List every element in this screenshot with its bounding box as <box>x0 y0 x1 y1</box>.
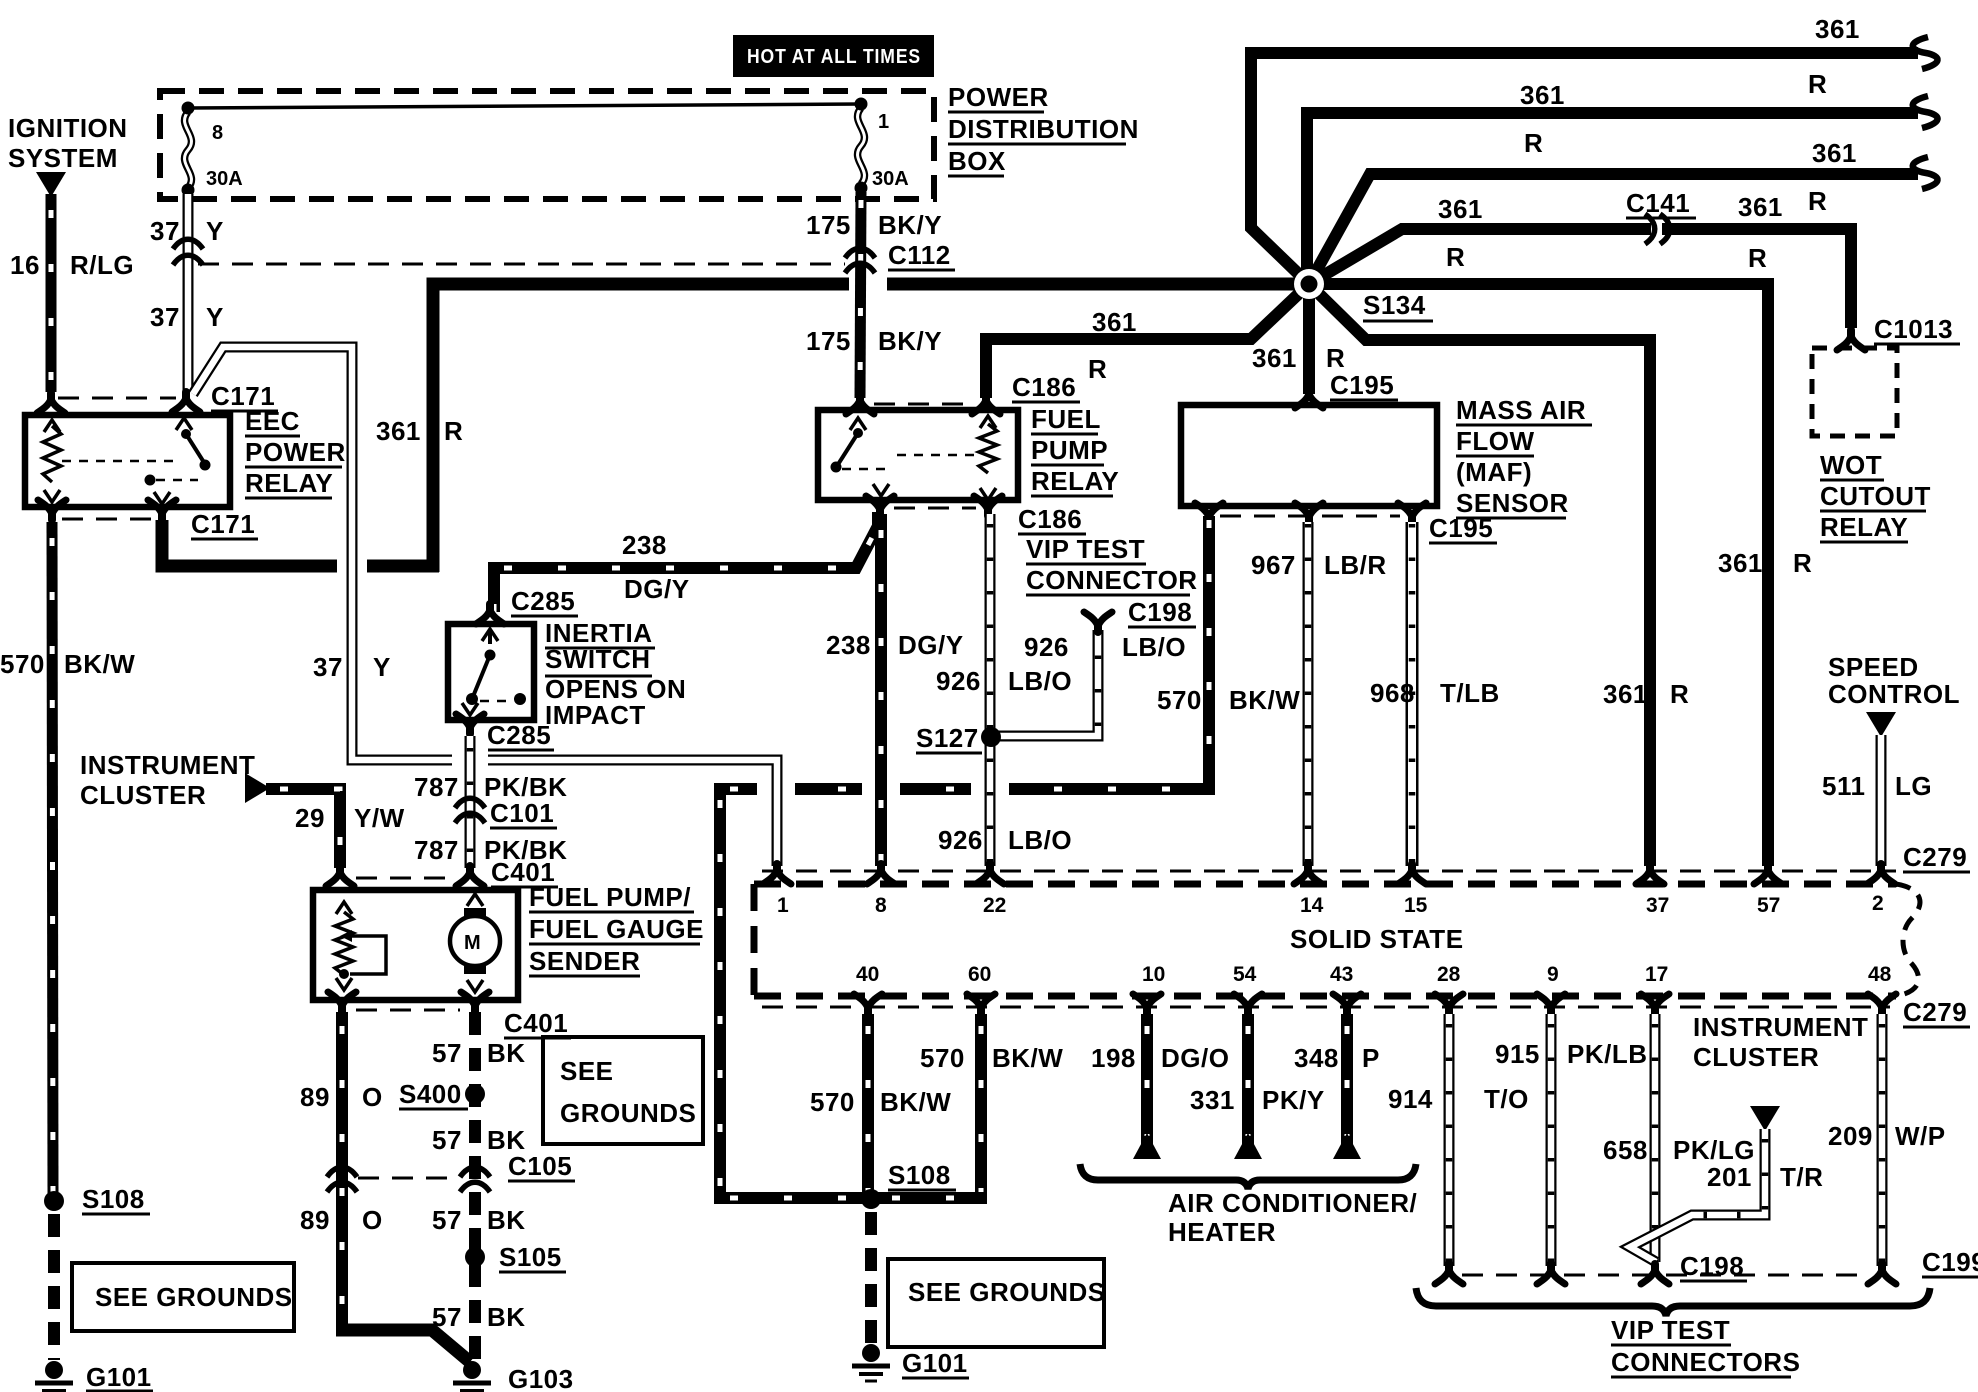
svg-text:C186: C186 <box>1018 504 1082 534</box>
svg-text:C141: C141 <box>1626 188 1690 218</box>
wire S108 to G101 (dashed) <box>48 1214 60 1360</box>
svg-text:PK/LG: PK/LG <box>1673 1135 1755 1165</box>
fuel pump motor M <box>450 916 500 966</box>
wire break squiggle line 2 <box>1913 96 1938 128</box>
svg-text:HEATER: HEATER <box>1168 1217 1276 1247</box>
svg-text:15: 15 <box>1404 894 1428 917</box>
svg-text:C186: C186 <box>1012 372 1076 402</box>
svg-text:C285: C285 <box>511 586 575 616</box>
svg-text:54: 54 <box>1233 963 1257 986</box>
connector C401 (sender bottom left) <box>328 992 356 1012</box>
svg-text:238: 238 <box>826 630 871 660</box>
svg-text:G103: G103 <box>508 1364 574 1392</box>
EEC relay coil <box>43 426 61 482</box>
connector C401 (29 wire end) <box>326 866 354 886</box>
connector C198 (VIP test) <box>1084 612 1112 632</box>
svg-text:T/O: T/O <box>1484 1084 1529 1114</box>
svg-text:LB/O: LB/O <box>1008 666 1072 696</box>
dashed harness line at C171 top <box>58 397 176 400</box>
svg-text:C105: C105 <box>508 1151 572 1181</box>
wire 29 Y/W instrument cluster to C401 <box>266 789 340 868</box>
svg-text:968: 968 <box>1370 678 1415 708</box>
svg-text:IGNITION: IGNITION <box>8 113 128 143</box>
wire 361 R C171 to S134 riser <box>162 520 439 566</box>
svg-text:C112: C112 <box>888 240 951 270</box>
svg-text:BK/Y: BK/Y <box>878 210 942 240</box>
svg-text:361: 361 <box>1438 194 1483 224</box>
svg-text:37: 37 <box>150 216 180 246</box>
connector C279 pin 60 <box>967 994 995 1014</box>
svg-text:INSTRUMENT: INSTRUMENT <box>1693 1012 1868 1042</box>
connector C171 (37 Y wire end) <box>172 392 200 412</box>
svg-text:209: 209 <box>1828 1121 1873 1151</box>
svg-text:787: 787 <box>414 772 459 802</box>
svg-text:PK/Y: PK/Y <box>1262 1085 1325 1115</box>
connector C186 (relay bottom right) <box>974 496 1002 516</box>
wire 361 R S134 arm to top line 1 <box>1251 53 1918 284</box>
dashed harness line C198/C199 <box>1462 1274 1870 1277</box>
off-page triangle instrument cluster <box>245 773 270 803</box>
dashed harness line C186 top <box>874 403 976 406</box>
connector C279 pin 17 <box>1641 994 1669 1014</box>
connector C198 (914 wire) <box>1435 1264 1463 1284</box>
wire break squiggle line 1 <box>1913 37 1938 69</box>
svg-text:DG/O: DG/O <box>1161 1043 1229 1073</box>
fuel pump relay coil <box>979 424 997 473</box>
svg-text:16: 16 <box>10 250 40 280</box>
wire 967 LB/R MAF to EEC pin 14 <box>1303 522 1314 866</box>
svg-text:511: 511 <box>1822 771 1865 801</box>
wire 968 T/LB MAF to EEC pin 15 <box>1406 522 1419 866</box>
connector C112 <box>845 248 875 258</box>
svg-text:89: 89 <box>300 1205 330 1235</box>
svg-text:LB/O: LB/O <box>1122 632 1186 662</box>
connector C279 pin 43 <box>1333 994 1361 1014</box>
svg-text:570: 570 <box>0 649 45 679</box>
svg-text:10: 10 <box>1142 963 1165 986</box>
svg-text:201: 201 <box>1707 1162 1752 1192</box>
svg-text:MASS AIR: MASS AIR <box>1456 395 1586 425</box>
svg-text:926: 926 <box>938 825 983 855</box>
fuel pump / fuel gauge sender box <box>313 890 518 1000</box>
svg-text:SOLID STATE: SOLID STATE <box>1290 924 1464 954</box>
EEC relay internal dashed link <box>62 460 180 463</box>
wire 361 R S134 arm to EEC pin 37 <box>1309 284 1650 866</box>
svg-text:43: 43 <box>1330 963 1353 986</box>
svg-text:48: 48 <box>1868 963 1892 986</box>
connector C1013 <box>1837 330 1865 350</box>
svg-text:T/LB: T/LB <box>1440 678 1500 708</box>
svg-text:P: P <box>1362 1043 1380 1073</box>
splice S108 (center) <box>861 1189 881 1209</box>
dashed harness line C401 top <box>356 877 456 880</box>
connector C401 (787 wire end) <box>456 866 484 886</box>
connector C279 pin 15 <box>1398 864 1426 884</box>
svg-text:1: 1 <box>878 111 889 133</box>
svg-text:361: 361 <box>1520 80 1565 110</box>
svg-text:BK/Y: BK/Y <box>878 326 942 356</box>
svg-text:570: 570 <box>920 1043 965 1073</box>
fuel pump relay box <box>818 410 1018 500</box>
label HOT AT ALL TIMES <box>733 35 934 77</box>
svg-text:CLUSTER: CLUSTER <box>1693 1042 1819 1072</box>
svg-text:14: 14 <box>1300 894 1324 917</box>
inertia switch internals <box>482 629 498 641</box>
off-page triangle 201 wire <box>1750 1106 1780 1131</box>
svg-text:CUTOUT: CUTOUT <box>1820 481 1931 511</box>
svg-text:CLUSTER: CLUSTER <box>80 780 206 810</box>
svg-text:FLOW: FLOW <box>1456 426 1535 456</box>
EEC relay switch <box>176 418 192 430</box>
connector C279 pin 37 <box>1636 864 1664 884</box>
svg-text:29: 29 <box>295 803 325 833</box>
svg-text:R: R <box>1326 343 1345 373</box>
svg-text:C279: C279 <box>1903 997 1967 1027</box>
svg-text:Y: Y <box>206 216 224 246</box>
svg-text:DG/Y: DG/Y <box>624 574 690 604</box>
svg-text:361: 361 <box>1718 548 1763 578</box>
svg-text:9: 9 <box>1547 963 1559 986</box>
svg-text:RELAY: RELAY <box>245 468 333 498</box>
wire 16 R/LG ignition feed <box>46 194 57 392</box>
svg-text:238: 238 <box>622 530 667 560</box>
wire 361 R C141 to WOT cutout relay <box>1662 229 1851 328</box>
svg-text:89: 89 <box>300 1082 330 1112</box>
svg-text:30A: 30A <box>872 168 909 190</box>
white break in 361 R where 175 BK/Y crosses <box>849 276 887 293</box>
svg-text:S108: S108 <box>888 1160 951 1190</box>
svg-text:57: 57 <box>432 1125 462 1155</box>
svg-text:BK/W: BK/W <box>1229 685 1300 715</box>
svg-text:22: 22 <box>983 894 1006 917</box>
svg-text:CONTROL: CONTROL <box>1828 679 1960 709</box>
connector C199 (209 wire) <box>1868 1264 1896 1284</box>
see grounds box (57 BK) <box>543 1037 703 1144</box>
wire 570 BK/W down leg <box>714 783 726 1204</box>
svg-text:30A: 30A <box>206 168 243 190</box>
svg-text:BK: BK <box>487 1205 526 1235</box>
svg-text:CONNECTORS: CONNECTORS <box>1611 1347 1800 1377</box>
svg-text:Y/W: Y/W <box>354 803 405 833</box>
svg-text:2: 2 <box>1872 892 1884 915</box>
svg-text:FUEL PUMP/: FUEL PUMP/ <box>529 882 691 912</box>
fuse 30A (left, cavity 8) <box>185 112 192 188</box>
connector C401 (sender bottom right) <box>461 992 489 1012</box>
svg-text:WOT: WOT <box>1820 450 1882 480</box>
ground G101 (center) <box>862 1344 880 1362</box>
svg-text:361: 361 <box>1092 307 1137 337</box>
wire 570 BK/W pin 60 to S108 <box>975 1014 987 1192</box>
svg-text:57: 57 <box>432 1302 462 1332</box>
svg-text:40: 40 <box>856 963 879 986</box>
splice S127 <box>981 727 1001 747</box>
svg-text:S127: S127 <box>916 723 979 753</box>
svg-text:570: 570 <box>1157 685 1202 715</box>
EEC power relay box U-EEC <box>25 415 230 507</box>
dashed harness line at C171 bottom <box>62 518 152 521</box>
see grounds box (left) <box>72 1263 294 1331</box>
svg-text:361: 361 <box>1603 679 1648 709</box>
svg-text:198: 198 <box>1091 1043 1136 1073</box>
svg-text:S400: S400 <box>399 1079 462 1109</box>
svg-text:37: 37 <box>313 652 343 682</box>
svg-text:57: 57 <box>432 1205 462 1235</box>
svg-text:SPEED: SPEED <box>1828 652 1919 682</box>
svg-text:C279: C279 <box>1903 842 1967 872</box>
svg-text:DISTRIBUTION: DISTRIBUTION <box>948 114 1139 144</box>
svg-text:570: 570 <box>810 1087 855 1117</box>
wire 348 P pin 43 to A/C <box>1341 1014 1353 1146</box>
svg-text:C198: C198 <box>1680 1251 1744 1281</box>
svg-text:787: 787 <box>414 835 459 865</box>
svg-text:361: 361 <box>376 416 421 446</box>
wire 209 W/P pin 48 to C199 <box>1877 1014 1888 1266</box>
svg-text:658: 658 <box>1603 1135 1648 1165</box>
svg-text:915: 915 <box>1495 1039 1540 1069</box>
connector C279 pin 28 <box>1435 994 1463 1014</box>
svg-text:RELAY: RELAY <box>1820 512 1908 542</box>
svg-text:POWER: POWER <box>948 82 1049 112</box>
splice S108 (left) <box>44 1191 64 1211</box>
connector C279 pin 22 <box>976 864 1004 884</box>
wire 361 R S134 arm to C141 <box>1309 229 1651 284</box>
svg-text:C171: C171 <box>191 509 255 539</box>
svg-text:O: O <box>362 1205 383 1235</box>
svg-text:C285: C285 <box>487 720 551 750</box>
svg-text:CONNECTOR: CONNECTOR <box>1026 565 1198 595</box>
svg-text:BOX: BOX <box>948 146 1006 176</box>
svg-text:37: 37 <box>150 302 180 332</box>
fuel gauge sender resistor <box>335 912 353 975</box>
dashed harness line C195 bottom <box>1220 515 1400 518</box>
svg-text:POWER: POWER <box>245 437 346 467</box>
connector C171 (ignition wire end) <box>37 393 65 413</box>
svg-text:R: R <box>1748 243 1767 273</box>
brace air conditioner <box>1080 1164 1416 1189</box>
wire 361 R S134 arm to top line 3 <box>1309 174 1918 284</box>
wire 570 BK/W main run to S108 <box>714 783 1215 795</box>
connector C285 (inertia top) <box>476 604 504 624</box>
power distribution box (dashed) <box>160 91 934 199</box>
svg-text:BK: BK <box>487 1302 526 1332</box>
svg-text:G101: G101 <box>902 1348 968 1378</box>
svg-text:C195: C195 <box>1429 513 1493 543</box>
inertia switch box <box>448 624 534 720</box>
svg-text:C195: C195 <box>1330 370 1394 400</box>
svg-text:17: 17 <box>1645 963 1668 986</box>
off-page triangle speed control <box>1866 712 1896 737</box>
svg-text:R: R <box>1670 679 1689 709</box>
fuel pump relay switch <box>850 418 866 430</box>
svg-text:G101: G101 <box>86 1362 152 1392</box>
dashed harness line C186 bottom <box>894 507 976 510</box>
svg-text:T/R: T/R <box>1780 1162 1823 1192</box>
svg-text:57: 57 <box>1757 894 1780 917</box>
see grounds box (center) <box>888 1259 1104 1347</box>
svg-text:175: 175 <box>806 210 851 240</box>
wire 926 LB/O relay to EEC pin 22 <box>985 514 996 866</box>
wire 37 Y fuse to C171 <box>183 194 194 392</box>
wire 37 Y C171 to EEC pin 1 <box>337 555 367 577</box>
MAF sensor box <box>1181 405 1437 506</box>
svg-text:914: 914 <box>1388 1084 1433 1114</box>
svg-text:RELAY: RELAY <box>1031 466 1119 496</box>
connector C285 (inertia bottom) <box>456 714 484 734</box>
svg-text:R: R <box>1808 186 1827 216</box>
EEC module box SOLID STATE (dashed) <box>754 881 1896 888</box>
svg-text:R: R <box>1446 242 1465 272</box>
wire 511 LG speed control to EEC pin 2 <box>1876 735 1887 866</box>
wire crossing breaks <box>757 780 795 798</box>
svg-text:361: 361 <box>1252 343 1297 373</box>
connector C279 pin 48 <box>1868 994 1896 1014</box>
wire 361 R S134 right arm to EEC pin 57 <box>1309 284 1768 866</box>
wire bus inside power box <box>188 104 861 108</box>
wire 89 O sender to C105 <box>336 1012 348 1330</box>
connector C279 pin 40 <box>854 994 882 1014</box>
svg-text:VIP TEST: VIP TEST <box>1026 534 1145 564</box>
svg-text:37: 37 <box>1646 894 1669 917</box>
svg-text:GROUNDS: GROUNDS <box>560 1098 696 1128</box>
connector C198 (658/201 wires) <box>1641 1264 1669 1284</box>
wire 570 BK/W pin 40 to S108 <box>862 1014 874 1192</box>
svg-text:R: R <box>1088 354 1107 384</box>
svg-text:W/P: W/P <box>1895 1121 1946 1151</box>
svg-text:361: 361 <box>1738 192 1783 222</box>
svg-text:BK: BK <box>487 1038 526 1068</box>
svg-text:S108: S108 <box>82 1184 145 1214</box>
brace VIP test connectors <box>1416 1288 1930 1316</box>
connector C279 pin 2 <box>1867 864 1895 884</box>
svg-text:Y: Y <box>373 652 391 682</box>
connector C198 (915 wire) <box>1537 1264 1565 1284</box>
connector C186 (relay bottom left) <box>866 496 894 516</box>
dashed connector line C279 (bottom) <box>762 1006 1890 1009</box>
wire 787 PK/BK inertia to C401 <box>465 736 476 868</box>
svg-text:BK/W: BK/W <box>880 1087 951 1117</box>
svg-text:8: 8 <box>875 894 887 917</box>
splice S105 <box>465 1247 485 1267</box>
svg-text:SYSTEM: SYSTEM <box>8 143 118 173</box>
splice S400 <box>465 1084 485 1104</box>
wire 331 PK/Y pin 54 to A/C <box>1242 1014 1254 1146</box>
splice S134 <box>1294 269 1324 299</box>
dashed harness line under power box <box>198 263 845 266</box>
svg-text:VIP TEST: VIP TEST <box>1611 1315 1730 1345</box>
wire 914 T/O pin 28 to C198 <box>1444 1014 1455 1266</box>
svg-text:AIR CONDITIONER/: AIR CONDITIONER/ <box>1168 1188 1417 1218</box>
svg-text:M: M <box>464 932 481 954</box>
ground G101 (left) <box>45 1361 63 1379</box>
svg-text:O: O <box>362 1082 383 1112</box>
svg-text:PUMP: PUMP <box>1031 435 1108 465</box>
svg-text:BK/W: BK/W <box>992 1043 1063 1073</box>
svg-text:C1013: C1013 <box>1874 314 1953 344</box>
connector C279 pin 10 <box>1133 994 1161 1014</box>
svg-text:SENDER: SENDER <box>529 946 640 976</box>
connector C195 (MAF bottom pins) <box>1195 503 1223 523</box>
dashed harness line C105 <box>358 1177 458 1180</box>
wire 238 DG/Y relay to inertia switch <box>494 512 878 612</box>
svg-text:926: 926 <box>936 666 981 696</box>
svg-text:R: R <box>1793 548 1812 578</box>
svg-text:PK/LB: PK/LB <box>1567 1039 1648 1069</box>
svg-text:348: 348 <box>1294 1043 1339 1073</box>
svg-text:967: 967 <box>1251 550 1296 580</box>
wire 198 DG/O pin 10 to A/C <box>1141 1014 1153 1146</box>
wire 57 BK sender to G103 (dashed) <box>469 1012 481 1360</box>
off-page triangle to ignition system <box>36 172 66 197</box>
connector symbol on 37 Y at harness line <box>173 239 203 249</box>
svg-text:INSTRUMENT: INSTRUMENT <box>80 750 255 780</box>
svg-text:175: 175 <box>806 326 851 356</box>
svg-text:FUEL GAUGE: FUEL GAUGE <box>529 914 704 944</box>
wire 361 R S134 arm to MAF C195 <box>1303 284 1315 394</box>
svg-text:LB/R: LB/R <box>1324 550 1387 580</box>
svg-text:SWITCH: SWITCH <box>545 644 651 674</box>
wire 361 R S134 left arm to EEC power relay <box>433 284 1309 572</box>
svg-text:IMPACT: IMPACT <box>545 700 646 730</box>
connector C186 (relay top right) <box>972 394 1000 414</box>
connector C186 (relay top left) <box>846 394 874 414</box>
connector C279 pin 8 <box>867 864 895 884</box>
connector C101 <box>455 798 485 808</box>
svg-text:361: 361 <box>1815 14 1860 44</box>
wire 570 BK/W EEC relay to S108 <box>52 522 53 1196</box>
svg-text:DG/Y: DG/Y <box>898 630 964 660</box>
svg-text:SEE GROUNDS: SEE GROUNDS <box>95 1282 293 1312</box>
svg-text:361: 361 <box>1812 138 1857 168</box>
svg-text:SEE: SEE <box>560 1056 614 1086</box>
svg-text:(MAF): (MAF) <box>1456 457 1532 487</box>
connector C279 pin 9 <box>1537 994 1565 1014</box>
svg-text:28: 28 <box>1437 963 1461 986</box>
svg-text:R/LG: R/LG <box>70 250 134 280</box>
dashed harness line C401 bottom <box>356 1009 460 1012</box>
connector C279 pin 14 <box>1294 864 1322 884</box>
svg-text:S105: S105 <box>499 1242 562 1272</box>
svg-text:EEC: EEC <box>245 406 300 436</box>
connector C195 (MAF top) <box>1295 388 1323 408</box>
svg-text:60: 60 <box>968 963 991 986</box>
svg-text:R: R <box>1808 69 1827 99</box>
svg-text:57: 57 <box>432 1038 462 1068</box>
wire 361 R S134 arm to top line 2 <box>1307 113 1918 284</box>
wire S108 to G101 (dashed) <box>865 1212 877 1348</box>
WOT cutout relay box (dashed) <box>1812 348 1897 436</box>
svg-text:926: 926 <box>1024 632 1069 662</box>
connector C279 pin 1 <box>763 864 791 884</box>
wire 658 PK/LG pin 17 to C198 <box>1650 1014 1661 1262</box>
svg-text:HOT AT ALL TIMES: HOT AT ALL TIMES <box>747 46 921 68</box>
connector C171 (relay left bottom) <box>38 500 66 520</box>
connector C279 pin 57 <box>1754 864 1782 884</box>
connector C141 <box>1645 214 1655 244</box>
wire crossing break at 787 <box>452 748 488 772</box>
svg-text:8: 8 <box>212 122 223 144</box>
ground G103 <box>463 1361 481 1379</box>
svg-text:LB/O: LB/O <box>1008 825 1072 855</box>
wire 926 LB/O S127 to C198 <box>990 630 1098 736</box>
svg-text:BK/W: BK/W <box>64 649 135 679</box>
wire 89 O to G103 <box>336 1330 470 1362</box>
svg-text:Y: Y <box>206 302 224 332</box>
wire 570 BK/W bottom run to S108 <box>714 1192 987 1204</box>
svg-text:C198: C198 <box>1128 597 1192 627</box>
wire break squiggle line 3 <box>1913 157 1938 189</box>
svg-text:S134: S134 <box>1363 290 1426 320</box>
svg-text:C101: C101 <box>490 798 554 828</box>
